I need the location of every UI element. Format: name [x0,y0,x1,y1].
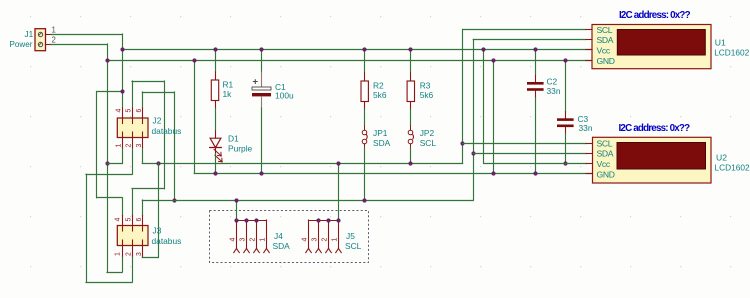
junction SCL / J3 pin3 branch [156,161,160,165]
wire GND bus to C3 [565,61,567,112]
wire J1 pin2 to GND corner [51,44,107,46]
wire SCL vertical x=462.6 [462,30,464,164]
wire J2 pin1 stub [122,148,124,164]
svg-text:SDA: SDA [273,241,291,251]
svg-text:databus: databus [152,126,182,136]
wire SCL drop to J5 [338,163,340,220]
junction GND / D1 [213,171,217,175]
junction J5 bar pin3 [316,218,320,222]
wire horizontal y=92 [142,92,174,94]
wire vertical x=122 Vcc to J2 pin4 [122,34,124,108]
wire J2 pin1 horizontal [107,163,122,165]
wire J3 pin3 stub [142,256,144,258]
svg-text:1: 1 [260,238,267,242]
svg-text:SCL: SCL [420,138,437,148]
wire R1 to D1 [215,108,217,131]
wire C2 to GND line [535,98,537,174]
junction SDA / JP1 [362,198,366,202]
wire horizontal y=81 [132,81,164,83]
wire SDA long horizontal y=200 [142,200,473,202]
connector J4 [234,220,270,253]
junction SCL / J5 [336,161,340,165]
svg-text:J5: J5 [346,231,355,241]
svg-text:Vcc: Vcc [597,159,611,169]
J5 pin numbers 4 3 2 1 [302,238,339,242]
svg-text:LCD1602: LCD1602 [714,47,749,57]
svg-text:U1: U1 [715,37,726,47]
svg-text:GND: GND [597,169,615,179]
wire horizontal y=272 to J3 pin1 [107,272,122,274]
wire J3 pin6 stub [142,200,144,216]
svg-text:SDA: SDA [597,35,614,45]
svg-text:D1: D1 [228,134,239,144]
svg-text:33n: 33n [579,123,593,133]
junction SCL branch U2 [460,141,464,145]
wire J3 pin5 stub [132,189,134,216]
wire Vcc to C2 [535,50,537,76]
wire SDA to U2 [473,153,586,155]
svg-text:databus: databus [152,236,182,246]
wire J3 pin4 stub [122,198,124,216]
junction Vcc bus / C1 [259,47,263,51]
svg-text:LCD1602: LCD1602 [715,162,750,172]
junction SDA / J2 pin6 route [172,198,176,202]
svg-text:C2: C2 [547,76,558,86]
resistor R3 [407,81,414,102]
LCD module U1 [586,25,711,69]
wire R2 to JP1 [364,109,366,126]
svg-text:J1: J1 [25,30,34,39]
junction Vcc branch on x=122 [120,89,124,93]
J4 pin numbers 4 3 2 1 [230,237,267,241]
LED D1 [210,138,222,162]
wire vertical x=174 to SDA [174,92,176,200]
resistor R2 pins [364,73,366,81]
svg-text:JP2: JP2 [420,128,435,138]
junction Vcc bus / C2 [533,47,537,51]
svg-text:5: 5 [126,218,133,222]
svg-text:1: 1 [116,144,123,148]
wire C3 to Vcc line [565,134,567,164]
wire SDA to U1 [473,39,585,41]
svg-text:3: 3 [136,252,143,256]
svg-text:GND: GND [597,56,615,66]
svg-text:1k: 1k [223,89,233,99]
svg-text:JP1: JP1 [373,128,388,138]
wire R3 to JP2 [410,109,412,126]
wire C1 to GND line [261,108,263,173]
jumper JP1 [362,126,367,148]
svg-text:6: 6 [136,109,143,113]
LCD module U2 [586,137,711,183]
wire Vcc to R3 [410,50,412,73]
svg-text:2: 2 [52,36,56,45]
junction SDA / J4 [234,198,238,202]
wire JP2 to SCL line [410,148,412,163]
junction GND bus drop [491,58,495,62]
svg-text:100u: 100u [275,91,294,101]
svg-text:I2C address: 0x??: I2C address: 0x?? [619,10,691,21]
svg-text:R3: R3 [420,81,431,91]
resistor R3 pins [410,73,412,81]
svg-text:33n: 33n [547,86,561,96]
junction GND bus x=194.3 [192,58,196,62]
svg-text:2: 2 [126,252,133,256]
junction J4 bar pin2 [254,218,258,222]
wire Vcc branch horizontal y=91.5 [97,91,122,93]
connector J3 [117,216,148,257]
wire vertical x=194.3 GND drop [194,61,196,174]
junction J4 bar pin3 [244,218,248,222]
svg-text:4: 4 [115,218,122,222]
wire vertical x=86 [86,174,88,282]
wire SDA vertical x=473.2 [473,40,475,201]
J3 pin numbers top 4 5 6 [115,218,143,222]
junction SDA branch U2 [471,151,475,155]
diode D1 pins [215,131,217,138]
dashed selection box [210,211,369,263]
svg-text:J2: J2 [153,115,162,125]
wire Vcc to U2 [484,163,586,165]
svg-text:5k6: 5k6 [420,90,434,100]
junction J4 bar pin4 [234,218,238,222]
svg-text:+: + [253,77,259,88]
svg-text:1: 1 [115,252,122,256]
junction Vcc line / C3 [563,161,567,165]
wire J3 pin2 stub [132,256,134,282]
svg-text:SCL: SCL [597,25,613,35]
svg-text:U2: U2 [716,152,727,162]
connector J2 [117,108,148,148]
svg-text:2: 2 [126,144,133,148]
junction Vcc bus / R3 [408,47,412,51]
wire horizontal y=188.8 [132,188,164,190]
svg-text:Purple: Purple [228,144,253,154]
wire GND long horizontal y=173.4 [194,173,592,175]
resistor R2 [361,81,368,102]
capacitor C1 polarized [252,72,271,108]
junction Vcc bus / R1 [213,47,217,51]
junction GND bus / C3 [563,58,567,62]
wire SCL long horizontal y=163.3 [142,163,462,165]
resistor R1 [211,80,218,101]
wire GND drop x=493.8 [493,61,495,174]
junction Vcc bus / R2 [362,47,366,51]
wire SDA drop to J4 [236,200,238,220]
wire J2 pin3 stub down [142,148,144,164]
connector J5 [306,220,342,253]
svg-text:J4: J4 [274,231,283,241]
junction GND / C1 [259,171,263,175]
wire JP1 to SDA line [364,148,366,200]
wire Vcc to C1 [261,50,263,72]
wire J2 pin5 stub up [132,81,134,108]
svg-text:J3: J3 [153,226,162,236]
svg-text:Power: Power [10,40,33,49]
wire J3 pin1 stub [122,256,124,272]
junction Vcc bus drop [481,47,485,51]
wire SCL to U2 [463,143,586,145]
svg-text:3: 3 [240,238,247,242]
junction J5 bar pin2 [326,218,330,222]
svg-text:SDA: SDA [597,149,614,159]
wire Vcc drop x=483.8 [483,50,485,164]
junction Vcc bus / J1 pin1 [120,47,124,51]
svg-text:5k6: 5k6 [373,90,387,100]
wire horizontal y=282 to J3 pin2 [86,282,132,284]
svg-text:SCL: SCL [597,139,613,149]
J2 pin numbers top 4 5 6 [116,109,143,113]
svg-text:R2: R2 [373,81,384,91]
wire J2 pin2 stub down [132,148,134,175]
svg-text:3: 3 [136,144,143,148]
resistor R1 pins [215,72,217,80]
capacitor C3 [557,112,574,134]
svg-text:3: 3 [312,238,319,242]
svg-text:4: 4 [116,109,123,113]
wire vertical x=96.7 [96,92,98,198]
capacitor C2 [527,76,544,98]
svg-text:4: 4 [230,238,237,242]
svg-text:SCL: SCL [345,241,362,251]
wire J2 pin6 stub up [142,92,144,108]
junction GND bus / J1 pin2 [105,58,109,62]
wire vertical x=164 [164,81,166,189]
connector J1 [35,29,51,51]
wire Vcc bus horizontal [122,49,592,51]
junction x=107 / J2 pin1 [105,161,109,165]
wire Vcc to R2 [364,50,366,73]
wire vertical x=158 [158,163,160,257]
svg-text:SDA: SDA [373,138,391,148]
svg-text:I2C address: 0x??: I2C address: 0x?? [619,123,691,134]
svg-text:4: 4 [302,238,309,242]
wire J1 pin1 to Vcc bus corner [51,34,122,36]
junction J5 bar pin1 [336,218,340,222]
wire horizontal y=257.5 to J3 pin3 [142,257,158,259]
J3 pin numbers bottom 1 2 3 [115,252,143,256]
junction GND line drop [491,171,495,175]
svg-text:2: 2 [250,237,257,241]
junction SCL / JP2 [408,161,412,165]
wire GND bus horizontal [107,60,592,62]
svg-text:Vcc: Vcc [597,46,611,56]
svg-text:1: 1 [52,26,56,35]
jumper JP2 [408,126,413,148]
wire D1 to GND line [215,154,217,174]
wire horizontal to J3 pin4 [97,197,122,199]
svg-text:6: 6 [136,218,143,222]
wire vertical x=107 GND to J3 pin1 route [107,44,109,272]
wire SCL to U1 [463,29,586,31]
J2 pin numbers bottom 1 2 3 [116,144,143,148]
svg-text:2: 2 [322,238,329,242]
svg-text:1: 1 [332,238,339,242]
junction GND / C2 [533,171,537,175]
wire Vcc to R1 [215,50,217,72]
svg-text:5: 5 [126,109,133,113]
wire J2 pin2 horizontal y=174.2 [86,174,132,176]
svg-text:R1: R1 [223,80,234,90]
